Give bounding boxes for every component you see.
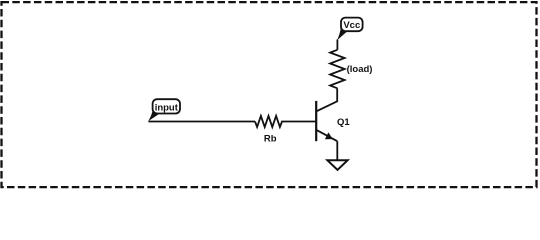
wire Vcc to load <box>336 40 338 50</box>
transistor Q1 <box>316 101 337 141</box>
power Vcc (callout label) <box>337 18 363 41</box>
svg-text:input: input <box>155 102 179 113</box>
resistor Rb <box>255 116 284 127</box>
resistor (load) <box>330 50 345 89</box>
ground <box>327 160 347 170</box>
wire emitter to ground <box>336 141 338 160</box>
svg-text:Q1: Q1 <box>337 117 350 128</box>
wire input to Rb <box>148 121 255 123</box>
wire collector to load resistor <box>336 88 338 102</box>
dashed border frame (decorative) <box>2 2 537 187</box>
node input (callout label) <box>148 99 180 121</box>
wire Rb to base <box>284 121 317 123</box>
svg-text:Vcc: Vcc <box>343 20 360 31</box>
svg-text:Rb: Rb <box>264 133 277 144</box>
svg-text:(load): (load) <box>347 64 373 75</box>
